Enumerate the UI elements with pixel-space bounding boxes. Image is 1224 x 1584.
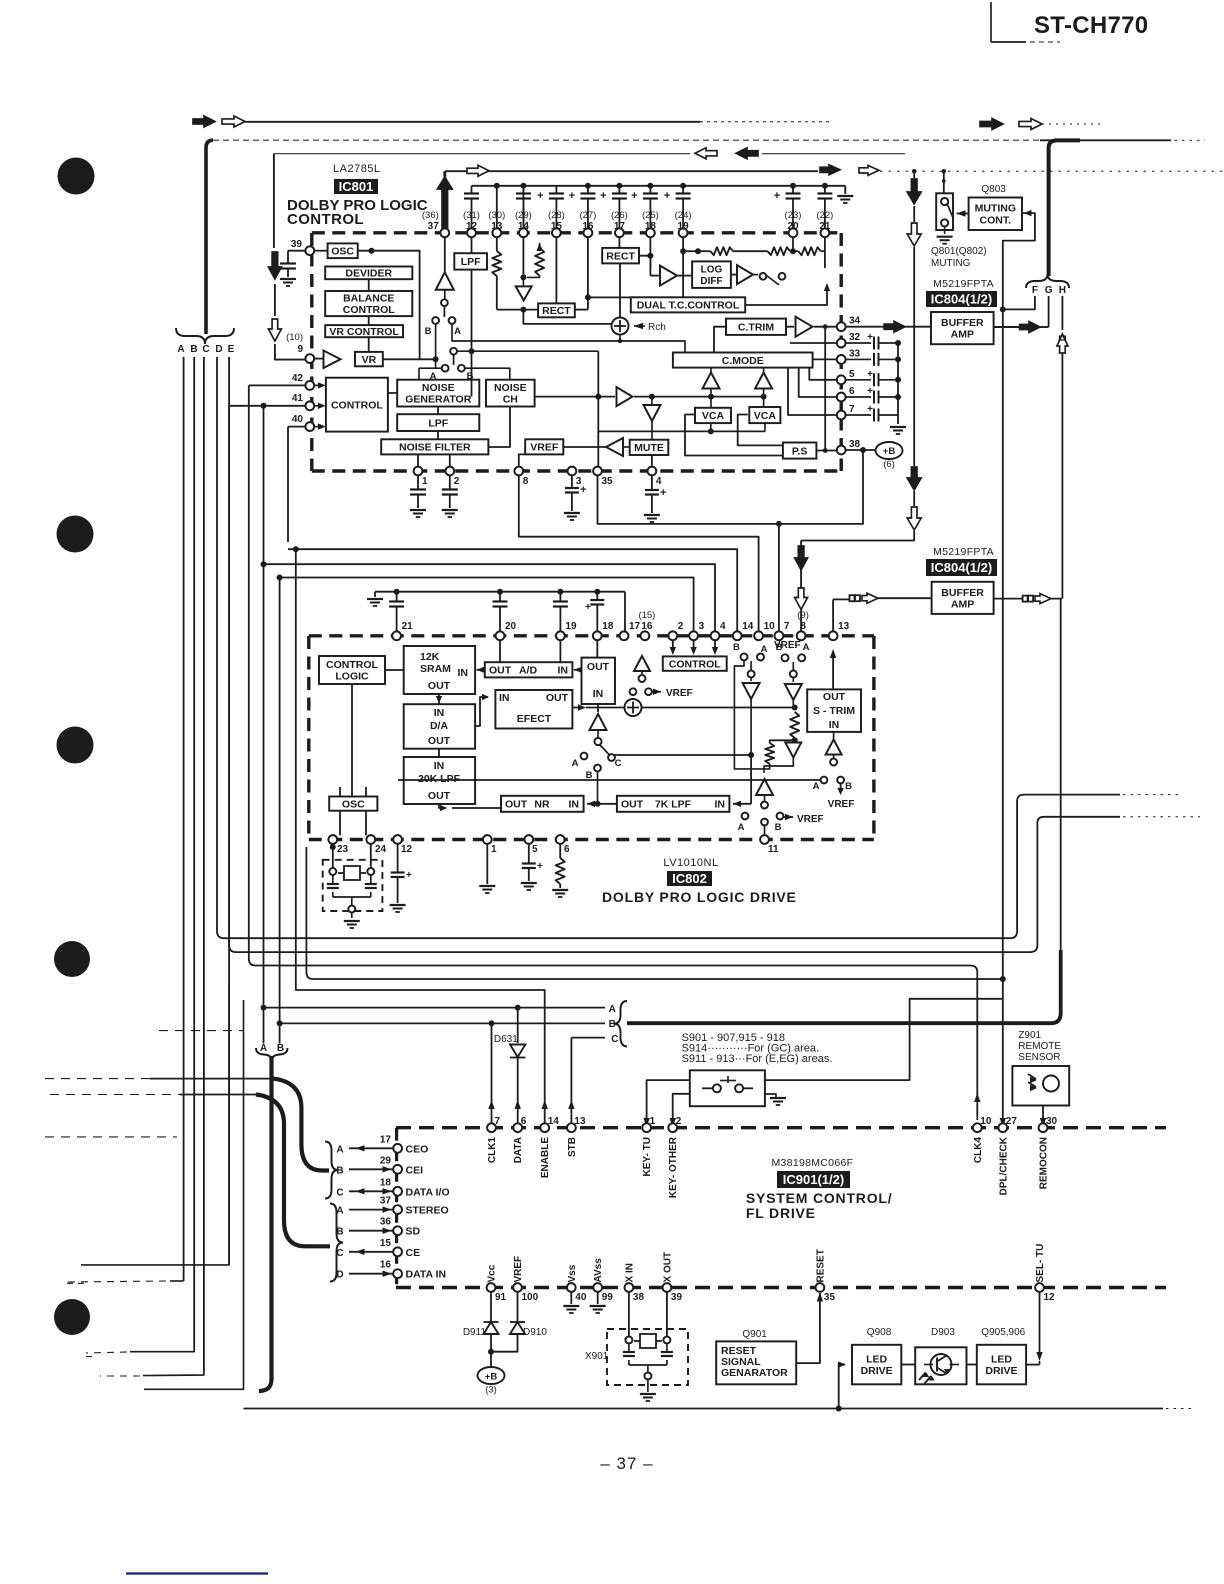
svg-text:16: 16 [641,621,653,632]
svg-text:10: 10 [764,621,776,632]
svg-text:+: + [585,602,591,613]
wire thick feeder [206,140,213,334]
connector glyph buffer2 in [850,593,879,603]
arrow into nr [587,772,617,808]
faint left line y1137 [45,1136,177,1138]
log diff box [692,261,731,288]
svg-text:F: F [1032,285,1038,296]
connector glyph H [1057,334,1068,353]
svg-text:4: 4 [720,621,726,632]
svg-text:IN: IN [593,688,604,700]
wire ctrim feed [714,327,726,353]
control logic box [319,656,385,684]
IC802 boundary (dashed) [309,636,874,840]
svg-text:3: 3 [699,621,705,632]
svg-text:VREF: VREF [774,640,801,651]
svg-text:+B: +B [883,446,896,457]
wire amp-logdiff [677,275,692,277]
wire col12 through lpf [471,237,473,397]
wire osc pins [340,787,366,835]
svg-text:23: 23 [337,844,349,855]
wire E vertical to bus2 [229,357,236,952]
svg-text:A: A [761,644,768,655]
svg-text:6: 6 [564,844,570,855]
wire d903-led2 [967,1364,977,1366]
tri up strim [826,732,842,766]
arrow into 7k [733,755,751,807]
svg-text:+: + [569,190,575,202]
M5219FPTA label 2 [933,546,994,558]
svg-text:27: 27 [1006,1116,1018,1127]
svg-text:IN: IN [569,799,580,811]
wire H [1061,296,1063,599]
svg-text:G: G [1045,285,1053,296]
svg-text:OUT: OUT [823,691,846,703]
wire run y549 [288,546,737,632]
cap pin6 [845,386,901,404]
svg-text:42: 42 [292,373,304,384]
mute box [630,440,669,455]
svg-text:MUTE: MUTE [634,442,664,454]
amp after ctrim [786,317,813,337]
wire mute to pin4 [651,455,653,467]
wire rsg to reset [796,1293,823,1364]
Q801 muting label [931,246,987,269]
wire STB column [568,1038,574,1132]
pin 11 [760,826,779,855]
wire dualtc right [745,283,830,305]
svg-text:2: 2 [676,1116,682,1127]
muting switch ground [937,227,953,244]
wire ad-sram arrow [477,667,485,673]
svg-text:ENABLE: ENABLE [540,1137,551,1178]
wire efect in [475,694,489,726]
svg-text:M5219FPTA: M5219FPTA [933,278,994,290]
svg-text:LOG: LOG [701,265,723,276]
arrow top-right solid [980,119,1003,130]
svg-text:39: 39 [671,1292,683,1303]
wire cl-osc [351,684,353,797]
wire pin18 into outin [596,640,598,658]
labels A B C D E [177,344,234,355]
svg-text:(15): (15) [638,610,655,621]
cap bus right [890,343,906,434]
lpf box col12 [454,253,487,269]
svg-text:IC804(1/2): IC804(1/2) [931,292,992,307]
svg-text:30: 30 [1046,1116,1058,1127]
svg-text:Q803: Q803 [981,184,1006,195]
wire buffer2 out [994,598,1062,600]
crystal dashed box [323,860,383,911]
svg-text:A: A [336,1144,343,1155]
svg-text:+: + [537,190,543,202]
svg-text:C: C [615,758,622,769]
faint left dashes bottom [67,1283,95,1356]
svg-text:IC901(1/2): IC901(1/2) [783,1172,844,1187]
S901 switch box [690,1070,765,1106]
wire mixer to strim [642,705,798,711]
svg-text:X OUT: X OUT [662,1252,673,1283]
wire col14 to mixer [523,310,611,324]
triangle down col14 [516,277,532,300]
strim box [807,689,861,732]
svg-text:99: 99 [602,1292,614,1303]
svg-text:A/D: A/D [519,665,538,677]
wire muting vertical [801,171,914,540]
svg-text:32: 32 [849,332,861,343]
wire pin35-pin38 run [598,450,864,527]
wire vca1 to ps [685,415,783,456]
wire D vertical to bus1 [217,357,224,938]
svg-text:12: 12 [401,844,413,855]
brace AB mid-left [256,1048,288,1061]
svg-text:12K: 12K [420,651,440,663]
wire CLK1 column [488,1023,494,1131]
wire led1-d903 [901,1364,915,1366]
svg-text:+: + [867,332,873,343]
svg-text:13: 13 [838,621,850,632]
switch bottom row [419,365,510,382]
Q803 label [981,184,1006,195]
amp before logdiff [650,256,677,286]
svg-text:OUT: OUT [546,692,569,704]
cap pin12 [390,844,412,912]
svg-text:NOISE FILTER: NOISE FILTER [399,442,471,454]
arrow up into pin13 [830,599,880,658]
svg-text:B: B [845,781,852,792]
arrow buffer1 in [884,321,905,332]
svg-text:CONTROL: CONTROL [331,399,383,411]
svg-text:C: C [336,1187,343,1198]
wire vrefbox-pin8 [519,454,525,466]
+B oval 3 [478,1349,505,1396]
wire col14 stub [520,183,526,229]
wire devider-balance [368,279,370,352]
wire 20k out [439,804,447,811]
svg-text:MUTING: MUTING [931,258,971,269]
wire pin42 left [249,384,306,386]
wire control-ng [388,392,397,394]
svg-text:LA2785L: LA2785L [333,163,381,175]
svg-text:VCA: VCA [754,410,777,422]
svg-text:SENSOR: SENSOR [1018,1052,1060,1063]
wire S901 right [765,999,1003,1080]
svg-text:MUTING: MUTING [975,203,1016,215]
svg-text:CE: CE [406,1247,421,1259]
arrow buffer1 out [1020,322,1040,333]
svg-text:– 37 –: – 37 – [600,1454,653,1473]
svg-text:Vss: Vss [567,1264,578,1282]
svg-text:CONTROL: CONTROL [343,304,395,316]
bus1 y938 [224,795,1180,939]
arrow y171 open [467,165,489,176]
arrow open down m1 [907,223,921,246]
svg-text:Q905,906: Q905,906 [981,1327,1025,1338]
svg-text:8: 8 [523,476,529,487]
resistor col14b with arrow [527,243,544,277]
svg-text:15: 15 [380,1238,392,1249]
wire col13 to bus [494,183,500,229]
IC901 top pins and labels [487,1116,1058,1198]
wire run y564 [261,561,716,632]
svg-text:ST-CH770: ST-CH770 [1034,12,1148,39]
noise generator box [397,380,479,407]
svg-text:D903: D903 [931,1327,955,1338]
svg-text:11: 11 [768,844,779,855]
svg-text:(10): (10) [286,332,303,343]
footer blue rule [126,1572,268,1574]
svg-text:+B: +B [485,1372,498,1383]
svg-text:19: 19 [565,621,577,632]
page title ST-CH770 [1034,12,1148,39]
wire seltu to led2 [1026,1292,1043,1365]
svg-text:(36): (36) [422,210,439,221]
AVss ground [590,1292,606,1313]
svg-text:S911 - 913···For (E,EG) areas.: S911 - 913···For (E,EG) areas. [682,1053,833,1065]
ctrim box [726,319,786,335]
svg-text:OUT: OUT [621,799,644,811]
svg-text:BUFFER: BUFFER [941,587,984,599]
svg-text:Rch: Rch [648,322,666,333]
tri down under amp [644,394,661,440]
svg-text:OUT: OUT [428,790,451,802]
IC901 title [746,1190,893,1221]
osc box 802 [329,797,377,811]
svg-text:35: 35 [824,1292,836,1303]
muting switch stem [942,171,946,193]
D903 box [915,1347,966,1384]
wire left drop to pin9 [274,154,306,360]
registration mark 5 [54,1299,90,1335]
vca box 2 [749,407,780,423]
IC901 boundary top (dashed) [396,1126,1166,1129]
+B oval 6 [876,442,903,470]
svg-text:VCA: VCA [702,410,725,422]
svg-text:OUT: OUT [428,735,451,747]
svg-text:C.MODE: C.MODE [722,355,764,367]
svg-text:20: 20 [505,621,517,632]
12k sram box [404,646,475,694]
arrow mid solid left [736,148,758,159]
svg-text:DIFF: DIFF [700,276,722,287]
amp at pin9 [314,351,341,369]
svg-text:18: 18 [602,621,614,632]
amp col37 [436,237,454,317]
switch 11 [738,813,824,833]
svg-text:DRIVE: DRIVE [861,1365,893,1377]
IC801 part no LA2785L [333,163,381,175]
svg-text:SRAM: SRAM [420,663,451,675]
brace group1 [325,1142,338,1199]
Q901 label [742,1329,767,1340]
wire y171 line [445,170,1224,172]
svg-text:M38198MC066F: M38198MC066F [772,1157,854,1169]
svg-text:IN: IN [434,707,445,719]
nr box [501,796,584,812]
IC901 label [777,1171,850,1188]
svg-text:A: A [260,1043,267,1054]
IC802 label [667,871,712,886]
svg-text:13: 13 [574,1116,586,1127]
cap pin7 [845,404,898,422]
svg-text:VREF: VREF [513,1256,524,1283]
wire pin13 to buffer2 [833,598,849,600]
wire run y577 [277,575,694,632]
svg-text:IN: IN [434,760,445,772]
X901 label [585,1351,609,1362]
resistor row 3 [790,237,825,268]
svg-text:E: E [228,344,235,355]
open down arrow left [268,319,281,341]
arrow solid down m1 [907,179,921,204]
wire pin19 into ad [559,640,561,662]
wire sw14 down [748,661,755,681]
cmode box [673,353,813,368]
wire ENABLE column [542,1090,548,1132]
svg-text:17: 17 [380,1134,392,1145]
capacitor pin1 [410,475,426,517]
arrow mid open left [695,148,717,159]
brace ABC [614,1001,627,1046]
svg-text:33: 33 [849,348,861,359]
lpf box 2 [397,414,479,431]
svg-text:91: 91 [495,1292,507,1303]
wire top line y122 [245,121,830,123]
A B circles right [813,777,855,810]
svg-text:IN: IN [499,692,510,704]
svg-text:+: + [867,386,873,397]
arrow top-left solid [193,116,215,127]
svg-text:CONT.: CONT. [980,214,1012,226]
svg-text:20K LPF: 20K LPF [418,773,461,785]
svg-text:40: 40 [292,414,304,425]
svg-text:37: 37 [380,1196,392,1207]
wire ng-lpf-nf [437,407,439,440]
solid down arrow left [268,252,281,279]
svg-text:NOISE: NOISE [422,382,455,394]
svg-text:AMP: AMP [951,329,974,341]
IC802 bottom pin numbers [337,844,570,855]
wire IC801 top bus [472,186,846,194]
IC804 label 1 [926,291,997,307]
pin 41 [292,393,314,410]
svg-text:10: 10 [980,1116,992,1127]
res pin6 802 [552,844,568,897]
labels ABC right [609,1004,619,1045]
wire nf-pins12 [418,454,450,466]
svg-text:EFECT: EFECT [517,713,552,725]
svg-text:IC802: IC802 [672,871,707,886]
wire col17 down to rect1 [618,237,620,248]
svg-text:38: 38 [633,1292,645,1303]
efect box [495,690,572,729]
svg-text:+: + [580,484,586,496]
bus4 y979 [306,847,1005,982]
wire pin8ic801 run [519,475,759,632]
svg-text:Q801(Q802): Q801(Q802) [931,246,987,257]
svg-text:IN: IN [715,799,726,811]
resistor col13 [492,237,501,310]
faint left line y1031 [159,1030,243,1032]
tri up under pin16 [634,640,650,682]
wire run y592 ic802 capbus [367,592,625,632]
IC801 label [334,179,378,194]
wire F [1000,296,1035,312]
svg-text:B: B [775,822,782,833]
svg-text:H: H [1059,285,1066,296]
A line [261,1005,606,1011]
tri up 11 [756,779,773,809]
wire mixer rch [634,322,666,333]
IC801 top pin labels [422,210,833,232]
bus junction dots [585,183,828,189]
svg-text:CLK1: CLK1 [487,1137,498,1164]
svg-text:VREF: VREF [666,688,693,699]
svg-text:100: 100 [522,1292,539,1303]
circle mid switch [450,348,598,365]
wire pin42 vertical [249,385,255,965]
svg-text:24: 24 [375,844,387,855]
brace group2 [330,1204,343,1282]
vref box 801 [525,439,563,454]
wire pin40 left [288,427,306,542]
svg-text:+: + [774,190,780,202]
IC802 top pins [392,631,837,640]
svg-text:STEREO: STEREO [406,1205,449,1217]
mute triangle [606,438,623,456]
svg-text:+: + [867,404,873,415]
wire outin down amp [597,704,599,712]
wire osc chain [358,248,420,360]
labels F G H [1032,285,1066,296]
Z901 label [1018,1030,1061,1063]
pin 9 [286,332,314,363]
svg-text:X IN: X IN [624,1263,635,1282]
led drive box 1 [852,1345,901,1385]
IC901 boundary bottom (dashed) [396,1286,1166,1289]
svg-text:D910: D910 [523,1327,547,1338]
svg-text:S - TRIM: S - TRIM [813,705,855,717]
svg-text:M5219FPTA: M5219FPTA [933,546,994,558]
ground top bus [837,196,853,203]
wire resrow feeds [680,237,796,297]
svg-text:B: B [277,1043,284,1054]
svg-text:(3): (3) [485,1385,497,1396]
svg-text:CONTROL: CONTROL [669,658,721,670]
capacitor pin3 electrolytic [564,475,587,520]
svg-text:C: C [611,1034,618,1045]
svg-text:6: 6 [521,1116,527,1127]
wire thick curve to brace1 [273,1079,329,1171]
svg-text:DPL/CHECK: DPL/CHECK [998,1136,1009,1195]
svg-text:DATA IN: DATA IN [406,1269,447,1281]
svg-text:D631: D631 [494,1034,518,1045]
IC901 bottom pins and labels [487,1244,1056,1303]
svg-text:5: 5 [532,844,538,855]
switch under 7-8 [774,640,810,661]
switch B under14 [733,642,768,661]
vca box 1 [695,408,731,423]
resistor strim2 [765,740,795,764]
rect box 2 [538,303,575,317]
wire col16 down [575,237,631,310]
led drive box 2 [977,1345,1026,1385]
switch ACB [572,745,622,781]
muting switch box [936,193,953,230]
Q905 label [981,1327,1025,1338]
20k lpf box [404,757,475,804]
svg-text:9: 9 [297,344,303,355]
